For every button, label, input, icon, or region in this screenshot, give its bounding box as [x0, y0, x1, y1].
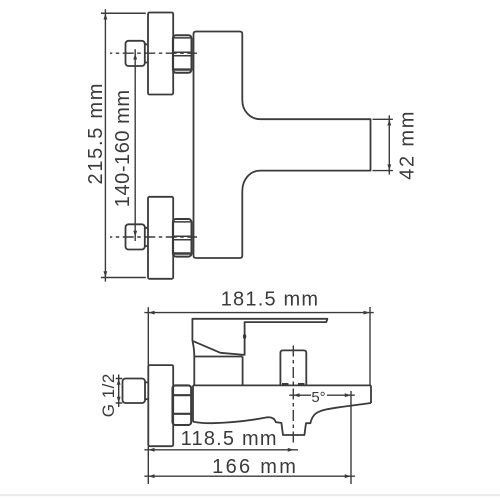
svg-text:5°: 5°: [311, 389, 325, 406]
svg-text:42 mm: 42 mm: [396, 110, 418, 180]
svg-text:G 1/2: G 1/2: [99, 373, 118, 417]
svg-text:181.5 mm: 181.5 mm: [221, 289, 320, 311]
svg-text:140-160 mm: 140-160 mm: [112, 89, 134, 207]
svg-text:215.5 mm: 215.5 mm: [85, 82, 107, 185]
svg-text:118.5 mm: 118.5 mm: [181, 428, 278, 450]
svg-text:166 mm: 166 mm: [212, 456, 298, 478]
